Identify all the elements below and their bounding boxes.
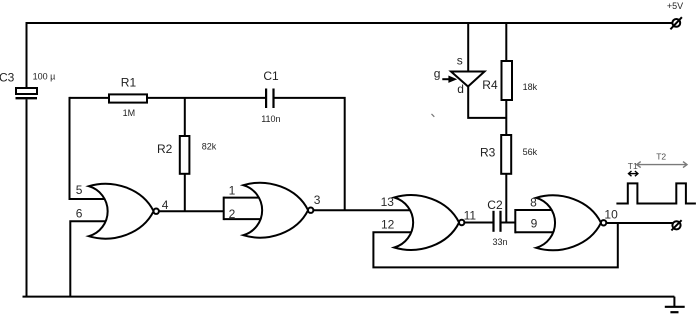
svg-text:+5V: +5V [667, 1, 683, 11]
svg-text:12: 12 [381, 217, 395, 231]
NOR gate U1D pins 8,9,10 [536, 195, 606, 250]
wire top +5V rail [27, 23, 674, 89]
wire gate4 input bracket [515, 209, 558, 233]
svg-text:R2: R2 [157, 142, 173, 156]
wire gate3 pin12 feedback [373, 223, 617, 267]
wire gate2 output to gate3 pin13 [313, 209, 416, 211]
svg-text:82k: 82k [202, 142, 217, 152]
wire R2 stem bottom [184, 174, 186, 212]
NOR gate U1A pins 5,6,4 [89, 184, 159, 239]
svg-text:13: 13 [381, 195, 395, 209]
svg-text:s: s [457, 53, 463, 67]
svg-text:R4: R4 [482, 78, 498, 92]
svg-text:110n: 110n [261, 114, 280, 124]
svg-text:T2: T2 [656, 152, 666, 162]
wire pin6 input [70, 221, 110, 296]
svg-text:3: 3 [314, 193, 321, 207]
svg-text:d: d [457, 82, 464, 96]
wire C3 bottom lead [26, 99, 28, 296]
svg-text:6: 6 [76, 206, 83, 220]
capacitor C2 [494, 211, 501, 232]
wire R2 stem top [184, 98, 186, 136]
wire pin5 input [69, 198, 111, 200]
wire C1 right to gate3 input [274, 98, 345, 210]
stray mark [432, 114, 435, 117]
wire transistor drain to divider [468, 87, 506, 118]
resistor R2 [180, 136, 190, 174]
wire R4 top lead [505, 23, 507, 61]
wire R1 C1 horizontal [70, 97, 267, 99]
svg-text:C2: C2 [487, 198, 503, 212]
wire R1 left node vertical [69, 97, 71, 199]
svg-text:1: 1 [229, 184, 236, 198]
wire bottom ground rail [23, 296, 675, 298]
gate shapes drawn over wires [89, 183, 607, 250]
resistor R3 [501, 135, 511, 174]
svg-text:C1: C1 [263, 69, 279, 83]
svg-text:R3: R3 [480, 146, 496, 160]
svg-text:33n: 33n [493, 237, 508, 247]
wire R3 bottom lead [505, 174, 507, 223]
NOR gate U1B pins 1,2,3 [243, 183, 313, 238]
svg-text:11: 11 [464, 209, 477, 223]
wire gate3 output to C2 [464, 222, 493, 224]
svg-text:5: 5 [76, 183, 83, 197]
capacitor C1 [266, 89, 273, 109]
waveform T1 T2 [616, 162, 696, 204]
svg-text:2: 2 [229, 207, 236, 221]
svg-text:100 µ: 100 µ [33, 71, 56, 81]
svg-text:R1: R1 [121, 75, 137, 89]
resistor R4 [502, 61, 513, 100]
wire gate2 input bracket [224, 197, 265, 221]
svg-text:C3: C3 [0, 70, 15, 84]
capacitor C3 [16, 88, 38, 98]
svg-text:1M: 1M [123, 108, 136, 118]
wire C2 to gate4 bracket [501, 222, 516, 224]
svg-text:8: 8 [530, 196, 537, 210]
svg-text:56k: 56k [523, 147, 538, 157]
T1 arrow [629, 171, 638, 176]
svg-text:T1: T1 [628, 161, 638, 171]
terminal output [671, 220, 681, 230]
wire gate4 output to terminal [606, 222, 672, 224]
resistor R1 [109, 94, 147, 102]
svg-text:18k: 18k [523, 82, 538, 92]
wire transistor source lead [467, 23, 469, 72]
wire waveform trace [616, 183, 696, 203]
svg-text:4: 4 [162, 198, 169, 212]
NOR gate U1C pins 13,12,11 [394, 195, 464, 250]
ground [665, 297, 685, 313]
svg-text:10: 10 [604, 208, 618, 222]
transistor Q1 [451, 72, 485, 87]
svg-text:g: g [434, 67, 441, 81]
wire R4 to R3 stem [505, 100, 507, 135]
wire gate1 output to gate2 [159, 210, 224, 212]
T2 arrow [637, 162, 687, 168]
wire gate arrow of transistor [442, 76, 457, 83]
svg-text:9: 9 [531, 217, 538, 231]
terminal +5V [670, 17, 682, 29]
